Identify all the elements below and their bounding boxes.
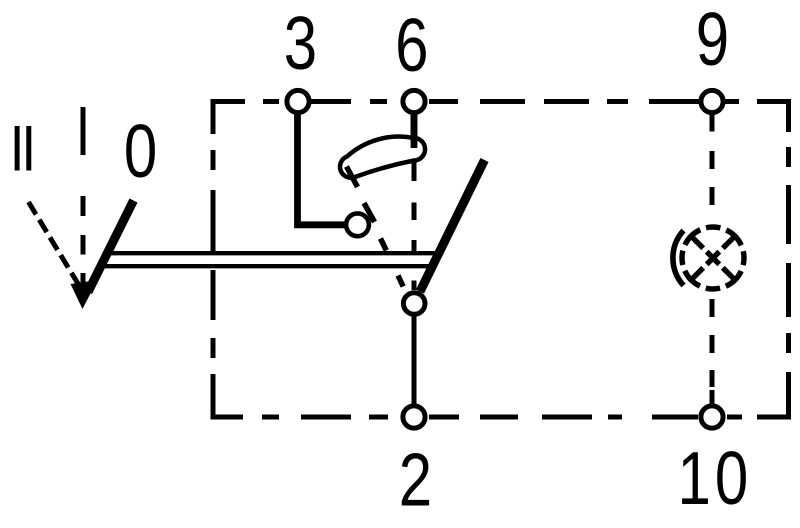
svg-text:1: 1 <box>678 438 711 521</box>
terminal 3 <box>287 90 309 112</box>
actuator lever (left, with arrow) <box>71 201 134 310</box>
contact circle (terminal 3 contact) <box>346 213 369 236</box>
enclosure left border (dash-dot) <box>211 150 216 358</box>
dashed wire: lamp to terminal 10 <box>710 299 715 405</box>
position marker I <box>81 107 86 155</box>
svg-text:0: 0 <box>124 111 157 194</box>
svg-text:2: 2 <box>399 439 432 522</box>
dashed wire: terminal 9 to lamp <box>710 151 715 205</box>
wire: terminal 3 to contact circle <box>298 111 348 225</box>
pivot circle <box>403 293 425 315</box>
svg-text:0: 0 <box>715 438 748 521</box>
dashed position line I (vertical) <box>81 196 86 288</box>
svg-text:9: 9 <box>696 0 729 82</box>
dashed stroke line: terminal 6 to pivot <box>412 161 417 291</box>
wire: terminal 6 stub into momentary symbol <box>411 111 418 148</box>
wire: terminal 9 stub <box>710 111 715 132</box>
momentary-function symbol (curved band) <box>340 137 425 187</box>
lamp L (illumination) <box>673 227 744 289</box>
terminal 9 <box>701 90 723 112</box>
svg-text:3: 3 <box>284 3 317 86</box>
terminal 2 <box>403 406 425 428</box>
wire: terminal 6 stem over band <box>411 111 418 148</box>
terminal 10 <box>701 406 723 428</box>
contact bridge lever (right) <box>420 160 485 292</box>
enclosure bottom border (dash-dot) <box>213 374 742 417</box>
position marker II <box>17 126 29 171</box>
terminal 6 <box>403 90 425 112</box>
dashed position line II (diagonal) <box>29 202 81 287</box>
wire: pivot to terminal 2 <box>412 314 417 405</box>
enclosure right border (dash-dot) <box>757 147 789 417</box>
enclosure top border (dash-dot) <box>213 102 789 135</box>
svg-text:6: 6 <box>395 5 428 88</box>
mechanical link bar (double line) <box>101 253 439 266</box>
dashed contact line: contact circle to pivot <box>364 203 403 287</box>
